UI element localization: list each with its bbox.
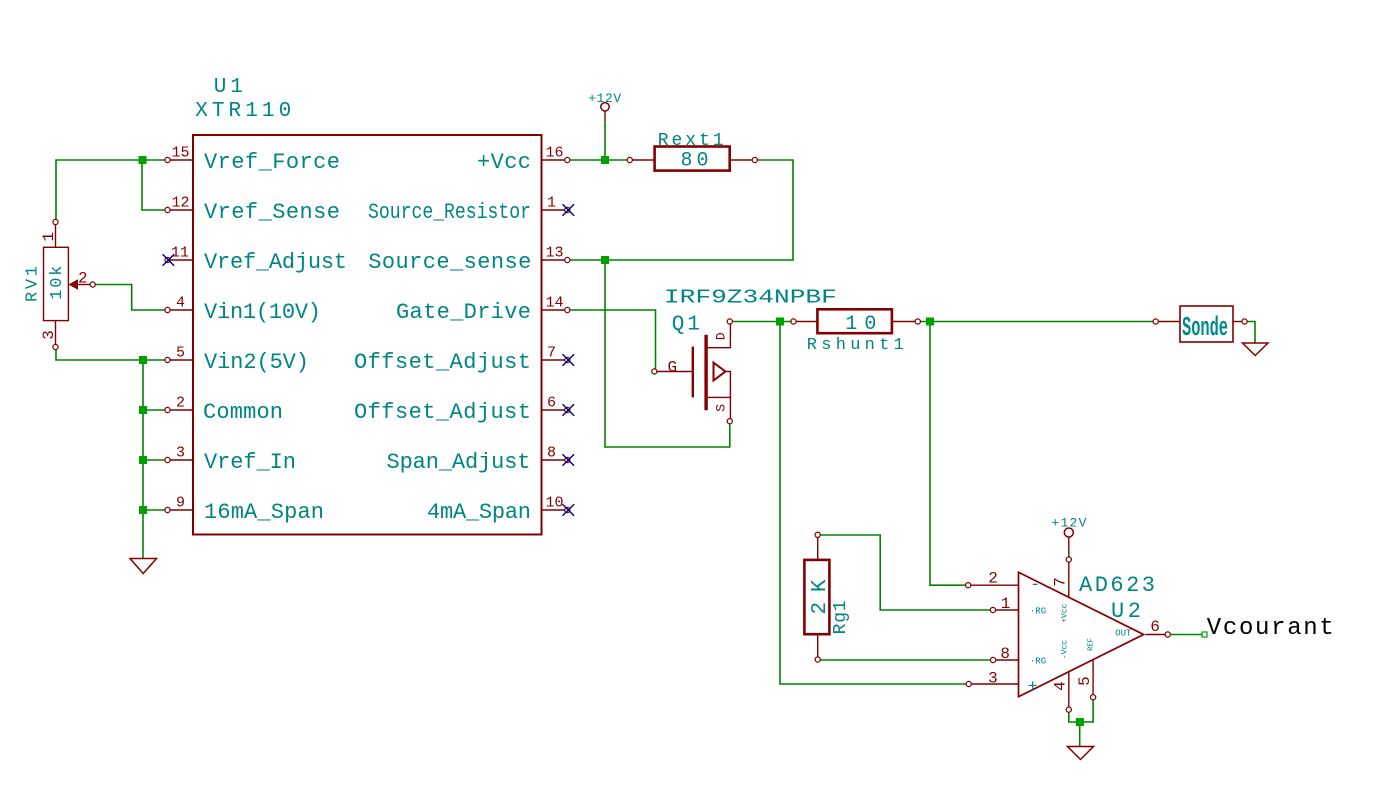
Rshunt1 right pin — [892, 319, 921, 324]
junction pin15 net — [139, 156, 147, 164]
RV1 pin 1 — [40, 219, 58, 247]
wire wiper horizontal — [93, 284, 132, 286]
IC U1 XTR110 body — [193, 135, 542, 535]
svg-text:+: + — [1028, 678, 1038, 697]
svg-text:8: 8 — [547, 445, 556, 462]
svg-text:G: G — [668, 358, 678, 376]
svg-text:15: 15 — [171, 145, 189, 162]
svg-text:Vref_Sense: Vref_Sense — [204, 200, 340, 225]
svg-text:14: 14 — [545, 295, 563, 312]
Q1 arrow — [714, 363, 726, 381]
no-connect pin8 — [563, 454, 575, 466]
Q1 channel bar — [704, 335, 707, 411]
wire drain-to-Rshunt — [730, 321, 794, 323]
svg-text:10: 10 — [545, 495, 563, 512]
wire to-pin9 — [143, 509, 167, 511]
svg-text:5: 5 — [1076, 676, 1094, 686]
svg-text:Offset_Adjust: Offset_Adjust — [354, 400, 531, 425]
svg-text:OUT: OUT — [1115, 628, 1132, 638]
no-connect pin10 — [563, 504, 575, 516]
svg-text:2: 2 — [176, 395, 185, 412]
svg-text:RV1: RV1 — [24, 266, 43, 302]
RV1 wiper pin 2 with arrow — [68, 270, 95, 290]
pin 14 Gate_Drive — [396, 295, 570, 326]
pin 13 Source_sense — [368, 245, 570, 276]
svg-text:REF: REF — [1088, 638, 1096, 651]
resistor Rshunt1 body — [817, 309, 892, 333]
wire U2-pin5 down — [1092, 697, 1094, 722]
wire Rext-right — [755, 159, 793, 161]
svg-text:Vref_Force: Vref_Force — [204, 150, 340, 175]
U2 pin 3 — [966, 669, 1018, 687]
svg-text:1: 1 — [547, 195, 556, 212]
svg-text:Rext1: Rext1 — [658, 131, 724, 151]
wire Rg1-bottom to-U2-pin8 — [818, 659, 993, 661]
U2 pin 1 — [990, 595, 1018, 613]
wire Sonde gnd drop — [1254, 322, 1256, 344]
wire to-U2-pin3 — [780, 683, 969, 685]
Q1 bulk link — [727, 372, 731, 398]
wire gnd tie horizontal — [1069, 721, 1093, 723]
svg-text:Vref_In: Vref_In — [204, 450, 296, 475]
wire +12V drop — [604, 121, 606, 160]
svg-text:IRF9Z34NPBF: IRF9Z34NPBF — [664, 286, 837, 308]
junction pin9 net — [139, 506, 147, 514]
svg-text:6: 6 — [1150, 618, 1160, 636]
svg-text:4: 4 — [176, 295, 185, 312]
wire Rshunt-to-Sonde — [918, 321, 1156, 323]
wire junction-to-pin15 — [142, 159, 167, 161]
wire Sonde-right — [1245, 321, 1256, 323]
junction U2 gnd — [1076, 718, 1084, 726]
no-connect pin7 — [563, 354, 575, 366]
svg-text:16mA_Span: 16mA_Span — [204, 500, 324, 525]
ground at left bus — [130, 559, 157, 574]
svg-text:-: - — [1030, 576, 1040, 595]
junction shunt-right — [926, 318, 934, 326]
wire +12V to-U2-pin7 — [1068, 552, 1070, 560]
wire source bottom horizontal — [605, 446, 730, 448]
svg-text:D: D — [714, 332, 729, 340]
wire to-U2-pin1 — [880, 609, 993, 611]
svg-text:Span_Adjust: Span_Adjust — [387, 450, 531, 475]
wire to-pin2 — [143, 409, 167, 411]
ground at Sonde — [1243, 343, 1269, 356]
svg-text:3: 3 — [988, 669, 998, 687]
wire pot1-to-pin15 horizontal — [56, 159, 142, 161]
svg-text:-Vcc: -Vcc — [1061, 640, 1070, 659]
svg-text:10k: 10k — [48, 266, 67, 300]
svg-text:Vin2(5V): Vin2(5V) — [204, 350, 309, 375]
svg-text:16: 16 — [545, 145, 563, 162]
no-connect pin6 — [563, 404, 575, 416]
svg-text:·RG: ·RG — [1030, 607, 1046, 617]
svg-text:Gate_Drive: Gate_Drive — [396, 300, 531, 325]
pin 4 Vin1(10V) — [165, 295, 321, 326]
resistor Rext1 body — [655, 147, 730, 171]
wire pin14 gate horizontal — [567, 309, 656, 311]
Q1 source stub — [708, 397, 731, 419]
wire source stub — [729, 421, 731, 447]
wire gnd bus vertical — [142, 360, 144, 558]
svg-text:3: 3 — [40, 330, 58, 340]
Rext1 left pin — [627, 157, 654, 162]
svg-text:Source_sense: Source_sense — [368, 250, 531, 275]
svg-text:1: 1 — [40, 232, 58, 242]
svg-text:Vref_Adjust: Vref_Adjust — [204, 250, 347, 275]
RV1 pin 3 — [40, 321, 58, 350]
svg-text:+Vcc: +Vcc — [1061, 603, 1070, 622]
Rg1 top pin — [815, 532, 820, 560]
svg-text:+Vcc: +Vcc — [477, 150, 531, 175]
pin 16 +Vcc — [477, 145, 570, 176]
junction source-sense — [601, 256, 609, 264]
svg-text:12: 12 — [171, 195, 189, 212]
svg-text:7: 7 — [1052, 577, 1070, 587]
pin 2 Common — [165, 395, 283, 426]
svg-text:Vcourant: Vcourant — [1207, 615, 1334, 642]
U2 pin 6 output — [1146, 618, 1171, 637]
svg-text:Rshunt1: Rshunt1 — [807, 336, 904, 355]
svg-text:9: 9 — [176, 495, 185, 512]
wire wiper vertical — [131, 285, 133, 311]
svg-text:1: 1 — [1001, 595, 1011, 613]
pin 1 Source_Resistor — [368, 195, 570, 226]
wire to-pin3 — [143, 459, 167, 461]
pin 15 Vref_Force — [165, 145, 340, 176]
pin 6 Offset_Adjust — [354, 395, 570, 426]
pin 3 Vref_In — [165, 445, 296, 476]
Rext1 right pin — [730, 157, 758, 162]
Sonde left pin — [1153, 319, 1180, 324]
wire pin13 horizontal — [567, 259, 793, 261]
no-connect pin11 — [163, 254, 175, 266]
wire to-pin12 — [142, 209, 167, 211]
Q1 source pin circle — [727, 419, 732, 424]
svg-text:4mA_Span: 4mA_Span — [427, 500, 531, 525]
pin 9 16mA_Span — [165, 495, 324, 526]
U2 pin 5 — [1076, 660, 1096, 700]
Q1 gate bar — [692, 347, 694, 398]
wire pot1 vertical — [55, 160, 57, 221]
svg-text:Vin1(10V): Vin1(10V) — [204, 300, 321, 325]
svg-text:13: 13 — [545, 245, 563, 262]
junction pin2 net — [139, 406, 147, 414]
pin 5 Vin2(5V) — [165, 345, 309, 376]
junction pin3 net — [139, 456, 147, 464]
junction pin5 net — [139, 356, 147, 364]
junction shunt-left — [776, 318, 784, 326]
svg-text:Source_Resistor: Source_Resistor — [368, 200, 531, 225]
wire pin16-to-Rext — [567, 159, 630, 161]
svg-text:+12V: +12V — [1051, 516, 1086, 531]
wire U2 gnd drop — [1079, 722, 1081, 747]
svg-text:7: 7 — [547, 345, 556, 362]
U2 pin 4 — [1052, 672, 1072, 712]
pin 12 Vref_Sense — [165, 195, 340, 226]
wire gate vertical — [655, 310, 657, 372]
wire Rg1-top horizontal — [818, 534, 881, 536]
net label Vcourant — [1202, 615, 1334, 642]
U2 pin 7 — [1052, 557, 1072, 597]
svg-text:AD623: AD623 — [1079, 573, 1155, 598]
svg-text:S: S — [714, 404, 729, 412]
svg-text:Rg1: Rg1 — [831, 600, 851, 634]
svg-text:3: 3 — [176, 445, 185, 462]
ground under U2 — [1068, 747, 1094, 760]
wire pot3 vertical — [55, 347, 57, 360]
svg-text:11: 11 — [171, 245, 189, 262]
op-amp U2 AD623 triangle — [1019, 572, 1144, 697]
svg-text:6: 6 — [547, 395, 556, 412]
U2 pin 8 — [991, 645, 1019, 663]
Sonde right pin — [1233, 319, 1247, 324]
Q1 gate pin — [652, 369, 692, 374]
resistor Rg1 body (vertical) — [804, 560, 829, 634]
pin 11 Vref_Adjust — [165, 245, 347, 276]
wire wiper-to-pin4 — [132, 309, 167, 311]
power +12V at Rext — [588, 91, 621, 121]
wire U2-pin4 down — [1068, 710, 1070, 722]
svg-text:2: 2 — [988, 570, 998, 588]
U2 pin 2 — [966, 570, 1019, 588]
Rshunt1 left pin — [791, 319, 818, 324]
pin 8 Span_Adjust — [387, 445, 570, 476]
pin 7 Offset_Adjust — [354, 345, 570, 376]
wire shunt-left down — [779, 322, 781, 685]
wire Rext feedback vertical — [792, 160, 794, 260]
wire Rg1-top vertical — [879, 535, 881, 610]
potentiometer RV1 body — [44, 247, 69, 320]
svg-text:Common: Common — [203, 400, 283, 425]
pin 10 4mA_Span — [427, 495, 570, 526]
Q1 drain stub — [708, 324, 731, 348]
svg-text:4: 4 — [1052, 681, 1070, 691]
Rg1 bottom pin — [815, 634, 820, 662]
wire pin15-to-pin12 vertical — [141, 160, 143, 210]
probe Sonde body — [1180, 306, 1233, 342]
Q1 drain pin circle — [727, 319, 732, 324]
wire U2-out to label — [1168, 634, 1202, 636]
wire pot3-to-pin5 — [56, 359, 167, 361]
svg-text:+12V: +12V — [588, 91, 621, 106]
no-connect pin1 — [563, 204, 575, 216]
svg-text:5: 5 — [176, 345, 185, 362]
svg-text:·RG: ·RG — [1030, 657, 1046, 667]
svg-text:Sonde: Sonde — [1182, 314, 1228, 344]
wire to-U2-pin2 — [930, 584, 967, 586]
wire source-sense vertical — [604, 260, 606, 447]
svg-text:Offset_Adjust: Offset_Adjust — [354, 350, 531, 375]
wire shunt-right down — [929, 322, 931, 586]
junction +Vcc net — [601, 156, 609, 164]
svg-text:2: 2 — [78, 270, 88, 288]
svg-text:8: 8 — [1000, 645, 1010, 663]
power +12V at U2 — [1051, 516, 1086, 554]
